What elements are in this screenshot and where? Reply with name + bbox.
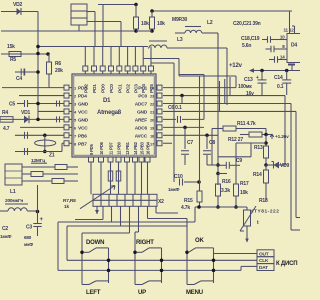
svg-text:мкФ: мкФ: [24, 242, 33, 247]
svg-text:R4: R4: [2, 110, 8, 116]
svg-text:R11 4.7k: R11 4.7k: [237, 121, 256, 127]
svg-text:D4: D4: [291, 43, 297, 49]
svg-text:UP: UP: [138, 290, 146, 296]
svg-text:C6 0.1: C6 0.1: [168, 105, 182, 111]
svg-text:10k: 10k: [240, 190, 248, 196]
svg-text:PC0: PC0: [138, 94, 147, 100]
svg-text:0.1: 0.1: [277, 84, 284, 90]
svg-text:PB7: PB7: [78, 141, 87, 147]
svg-text:PD2: PD2: [83, 84, 89, 93]
svg-text:Atmega8: Atmega8: [97, 110, 122, 116]
svg-text:4.7k: 4.7k: [181, 205, 190, 211]
svg-text:680: 680: [24, 235, 32, 240]
svg-text:D1: D1: [103, 98, 111, 104]
svg-text:C3: C3: [26, 225, 32, 231]
svg-text:14: 14: [280, 55, 285, 60]
svg-text:15k: 15k: [7, 44, 15, 50]
svg-text:C7: C7: [187, 140, 193, 146]
svg-text:PC2: PC2: [126, 84, 132, 93]
svg-text:+12v: +12v: [229, 63, 243, 69]
svg-text:MENU: MENU: [186, 290, 203, 296]
svg-text:C10: C10: [174, 174, 183, 180]
svg-text:R17: R17: [240, 181, 249, 187]
svg-text:5.6n: 5.6n: [242, 43, 251, 49]
svg-text:PD4: PD4: [78, 94, 87, 100]
svg-text:M9R30: M9R30: [172, 17, 188, 23]
svg-text:R12 27: R12 27: [228, 137, 243, 143]
svg-text:L3: L3: [177, 37, 183, 43]
svg-text:AVCC: AVCC: [135, 133, 148, 139]
svg-text:C14: C14: [274, 75, 283, 81]
svg-text:4.7: 4.7: [3, 126, 10, 132]
svg-text:C5: C5: [9, 102, 15, 108]
svg-text:1k: 1k: [64, 204, 69, 210]
svg-text:PD1: PD1: [92, 84, 98, 93]
svg-text:DOWN: DOWN: [86, 240, 104, 246]
svg-text:PB6: PB6: [78, 133, 87, 139]
svg-text:R15: R15: [184, 198, 193, 204]
svg-text:ADC7: ADC7: [135, 102, 148, 108]
svg-text:GND: GND: [78, 102, 89, 108]
svg-text:KTY81-222: KTY81-222: [250, 209, 279, 215]
svg-text:+1.26v: +1.26v: [275, 134, 289, 140]
svg-text:13 PB1: 13 PB1: [125, 141, 130, 155]
svg-text:PC1: PC1: [117, 84, 123, 93]
svg-text:100мк: 100мк: [238, 84, 252, 90]
svg-text:R14: R14: [253, 172, 262, 178]
svg-text:11 12: 11 12: [284, 28, 295, 33]
svg-text:PC4: PC4: [141, 84, 147, 93]
svg-text:1мкФ: 1мкФ: [0, 234, 12, 239]
svg-text:VD9: VD9: [280, 163, 290, 169]
svg-text:16 PB4: 16 PB4: [146, 141, 151, 155]
svg-text:Z1: Z1: [49, 153, 55, 159]
svg-text:9 PD5: 9 PD5: [89, 143, 94, 155]
svg-text:PC3: PC3: [133, 84, 139, 93]
svg-text:VCC: VCC: [78, 109, 88, 115]
svg-text:RIGHT: RIGHT: [136, 240, 154, 246]
svg-text:15 PB3: 15 PB3: [140, 141, 145, 155]
svg-text:10 PD6: 10 PD6: [99, 141, 104, 155]
svg-text:3.3k: 3.3k: [221, 188, 230, 194]
svg-text:14 PB2: 14 PB2: [133, 141, 138, 155]
svg-text:PC5: PC5: [149, 84, 155, 93]
svg-text:R16: R16: [222, 179, 231, 185]
svg-text:10k: 10k: [157, 21, 165, 27]
svg-text:C18,C19: C18,C19: [241, 36, 260, 42]
svg-text:AREF: AREF: [135, 117, 148, 123]
svg-text:R6: R6: [55, 61, 61, 67]
svg-text:10: 10: [280, 35, 285, 40]
svg-text:VCC: VCC: [78, 125, 88, 131]
svg-text:C9: C9: [236, 158, 242, 164]
svg-text:LEFT: LEFT: [86, 290, 101, 296]
svg-text:+: +: [256, 75, 259, 81]
svg-text:C2: C2: [2, 226, 8, 232]
svg-text:R7,R8: R7,R8: [63, 198, 76, 204]
svg-text:OK: OK: [195, 238, 204, 244]
svg-text:R13: R13: [254, 145, 263, 151]
svg-text:10k: 10k: [141, 21, 149, 27]
svg-text:VD1: VD1: [21, 110, 31, 116]
svg-text:L2: L2: [207, 20, 213, 26]
svg-text:1мкФ: 1мкФ: [168, 187, 180, 192]
svg-text:12 PB0: 12 PB0: [117, 141, 122, 155]
svg-text:11 PD7: 11 PD7: [109, 142, 114, 155]
svg-text:C20,C21 39n: C20,C21 39n: [233, 21, 261, 27]
svg-text:PD0: PD0: [101, 84, 107, 93]
svg-text:16v: 16v: [246, 91, 254, 97]
svg-text:GND: GND: [137, 109, 148, 115]
svg-text:C4: C4: [16, 76, 22, 82]
svg-text:DAT: DAT: [259, 265, 268, 271]
svg-text:К ДИСП: К ДИСП: [276, 261, 297, 267]
svg-text:PC0: PC0: [109, 84, 115, 93]
svg-text:C13: C13: [244, 77, 253, 83]
svg-text:X2: X2: [158, 199, 164, 205]
svg-text:200мкГн: 200мкГн: [5, 198, 23, 204]
svg-text:R5: R5: [10, 57, 16, 63]
svg-text:L1: L1: [10, 189, 16, 195]
svg-text:ADC6: ADC6: [135, 125, 148, 131]
svg-text:VD2: VD2: [13, 2, 23, 8]
svg-text:R18: R18: [259, 198, 268, 204]
svg-text:20k: 20k: [55, 68, 63, 74]
svg-text:GND: GND: [78, 117, 89, 123]
